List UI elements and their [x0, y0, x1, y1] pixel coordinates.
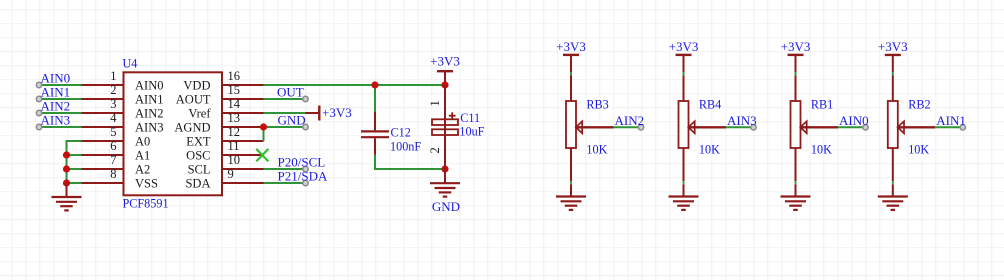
pin 10 SCL	[188, 153, 264, 177]
svg-text:A0: A0	[135, 134, 150, 148]
svg-text:RB1: RB1	[811, 98, 833, 112]
designator RB4	[699, 98, 721, 112]
value 10uF	[459, 125, 484, 139]
value 10K	[586, 142, 607, 156]
svg-text:AIN2: AIN2	[135, 106, 163, 120]
designator C11	[460, 111, 480, 125]
svg-text:AIN3: AIN3	[727, 113, 757, 128]
pin 12 EXT	[186, 125, 263, 149]
svg-text:AIN3: AIN3	[135, 120, 163, 134]
svg-text:11: 11	[228, 139, 240, 153]
svg-text:U4: U4	[123, 56, 138, 70]
svg-text:+3V3: +3V3	[781, 39, 811, 54]
power port +3V3 (RB4)	[669, 39, 699, 73]
net label P21/SDA	[278, 169, 328, 184]
designator C12	[391, 126, 411, 140]
wire end dot	[36, 96, 41, 101]
junction VDD/C11	[441, 81, 448, 88]
pin 6 A1	[82, 139, 151, 163]
svg-text:10K: 10K	[699, 142, 720, 156]
svg-text:OUT: OUT	[277, 85, 304, 100]
wire to ground	[570, 182, 572, 184]
svg-text:SCL: SCL	[188, 162, 211, 176]
svg-text:10K: 10K	[811, 142, 832, 156]
svg-text:2: 2	[110, 83, 116, 97]
ground symbol (U4)	[52, 197, 82, 210]
svg-text:12: 12	[228, 125, 241, 139]
C11 pin number 2	[428, 147, 442, 153]
svg-text:10: 10	[228, 153, 241, 167]
pin 7 A2	[82, 153, 151, 177]
wiper arrow RB2	[898, 121, 936, 133]
svg-text:13: 13	[228, 111, 241, 125]
pin 13 AGND	[174, 111, 263, 135]
capacitor C11 10uF	[432, 85, 458, 169]
svg-text:9: 9	[228, 167, 234, 181]
net label P20/SCL	[278, 155, 326, 170]
wire RB2 bottom pin	[892, 148, 894, 181]
wire C12 top	[374, 85, 376, 112]
designator RB3	[586, 98, 608, 112]
wire to GND port	[444, 169, 446, 183]
ground symbol (RB2)	[878, 197, 908, 210]
svg-text:3: 3	[110, 97, 116, 111]
svg-text:7: 7	[110, 153, 116, 167]
net label AIN2	[41, 99, 71, 114]
svg-text:VSS: VSS	[135, 176, 158, 190]
designator RB1	[811, 98, 833, 112]
potentiometer RB1 body	[791, 101, 801, 148]
net label AIN0	[41, 71, 71, 86]
wire net P21/SDA from pin 9	[264, 182, 306, 184]
wire to ground	[795, 182, 797, 184]
wire segment	[683, 75, 685, 101]
pin 16 VDD	[183, 69, 263, 93]
svg-text:100nF: 100nF	[390, 140, 421, 154]
wire end dot AIN1	[960, 125, 965, 130]
wire end dot	[36, 124, 41, 129]
wire net AIN2 from wiper	[614, 126, 642, 128]
net label AIN3	[727, 113, 757, 128]
wire end dot	[36, 110, 41, 115]
pin 15 AOUT	[176, 83, 264, 107]
junction VDD/C12	[371, 81, 378, 88]
wire A2 to ground bus	[67, 168, 82, 170]
svg-text:C11: C11	[460, 111, 480, 125]
power port +3V3 (RB3)	[556, 39, 586, 73]
wire segment	[570, 184, 572, 196]
svg-text:VDD: VDD	[183, 78, 210, 92]
wire segment	[570, 75, 572, 101]
value 10K	[699, 142, 720, 156]
wire A0 to ground bus	[66, 140, 82, 142]
potentiometer RB3 body	[566, 101, 576, 148]
wire segment	[892, 184, 894, 196]
wire net AIN0 from wiper	[838, 126, 866, 128]
power port +3V3 (RB1)	[781, 39, 811, 73]
C11 pin number 1	[428, 100, 442, 106]
wire +3V3 to RB3	[570, 72, 572, 75]
junction A1	[63, 151, 70, 158]
net label AIN3	[41, 113, 71, 128]
wire pin 14 Vref	[264, 112, 306, 114]
wire segment	[683, 184, 685, 196]
wire +3V3 to RB1	[795, 72, 797, 75]
GND label	[432, 199, 460, 214]
designator RB2	[908, 98, 930, 112]
svg-text:5: 5	[110, 125, 116, 139]
wire RB1 bottom pin	[795, 148, 797, 181]
pin 8 VSS	[82, 167, 158, 191]
value 10K	[908, 142, 929, 156]
wire end dot P21/SDA	[303, 180, 308, 185]
svg-text:RB4: RB4	[699, 98, 721, 112]
wire net AIN3 from wiper	[726, 126, 754, 128]
wire VSS to ground bus	[67, 182, 82, 184]
svg-text:AOUT: AOUT	[176, 92, 211, 106]
junction VSS	[63, 179, 70, 186]
wire net AIN2 to pin 3	[42, 112, 82, 114]
value 100nF	[390, 140, 421, 154]
junction pin 13	[260, 123, 267, 130]
svg-text:AIN2: AIN2	[41, 99, 71, 114]
svg-text:Vref: Vref	[188, 106, 211, 120]
wire end dot	[36, 82, 41, 87]
pin 1 AIN0	[82, 69, 164, 93]
svg-text:AIN0: AIN0	[135, 78, 163, 92]
part name PCF8591	[123, 196, 169, 210]
wire net AIN3 to pin 4	[42, 126, 82, 128]
net label OUT	[277, 85, 304, 100]
svg-text:+3V3: +3V3	[669, 39, 699, 54]
pin 3 AIN2	[82, 97, 164, 121]
svg-text:A1: A1	[135, 148, 150, 162]
svg-text:GND: GND	[278, 113, 306, 128]
pin 11 OSC	[186, 139, 262, 163]
wire net GND from pin 13	[264, 126, 306, 128]
wire segment	[892, 75, 894, 101]
net label AIN0	[839, 113, 869, 128]
wire net OUT from pin 15	[264, 98, 306, 100]
svg-text:10K: 10K	[586, 142, 607, 156]
power port +3V3 (RB2)	[878, 39, 908, 73]
wire end dot GND	[303, 124, 308, 129]
svg-text:+3V3: +3V3	[556, 39, 586, 54]
svg-text:C12: C12	[391, 126, 411, 140]
svg-text:AIN1: AIN1	[41, 85, 71, 100]
wire +3V3 to RB2	[892, 72, 894, 75]
svg-text:2: 2	[428, 147, 442, 153]
svg-text:1: 1	[428, 100, 442, 106]
net label GND	[278, 113, 306, 128]
svg-text:SDA: SDA	[185, 176, 210, 190]
wire net AIN1 from wiper	[935, 126, 963, 128]
svg-text:10K: 10K	[908, 142, 929, 156]
svg-text:PCF8591: PCF8591	[123, 196, 169, 210]
potentiometer RB2 body	[888, 101, 898, 148]
svg-text:AGND: AGND	[174, 120, 210, 134]
wire net P20/SCL from pin 10	[264, 168, 306, 170]
svg-text:AIN0: AIN0	[41, 71, 71, 86]
wiper arrow RB1	[800, 121, 838, 133]
wire net AIN1 to pin 2	[42, 98, 82, 100]
power port +3V3 on rail	[430, 53, 460, 85]
no-connect X on pin 11 OSC	[256, 149, 268, 162]
wire VDD rail	[264, 84, 446, 86]
svg-text:RB2: RB2	[908, 98, 930, 112]
svg-text:AIN1: AIN1	[936, 113, 966, 128]
wire pin 13 to pin 12	[263, 127, 265, 141]
svg-text:AIN1: AIN1	[135, 92, 163, 106]
wire to ground	[683, 182, 685, 184]
pin 5 A0	[82, 125, 151, 149]
net label AIN1	[936, 113, 966, 128]
svg-text:EXT: EXT	[186, 134, 211, 148]
wiper arrow RB3	[576, 121, 614, 133]
svg-text:AIN3: AIN3	[41, 113, 71, 128]
svg-text:RB3: RB3	[586, 98, 608, 112]
power port +3V3 on Vref	[306, 105, 352, 120]
svg-text:A2: A2	[135, 162, 150, 176]
potentiometer RB4 body	[679, 101, 689, 148]
wire RB3 bottom pin	[570, 148, 572, 181]
svg-text:+3V3: +3V3	[878, 39, 908, 54]
wire ground bus vertical	[66, 141, 68, 183]
wire segment	[795, 75, 797, 101]
capacitor C12 100nF	[361, 112, 389, 169]
wire to ground	[892, 182, 894, 184]
net label AIN2	[615, 113, 645, 128]
pin 4 AIN3	[82, 111, 164, 135]
svg-text:10uF: 10uF	[459, 125, 484, 139]
svg-text:P20/SCL: P20/SCL	[278, 155, 326, 170]
pin 9 SDA	[185, 167, 263, 191]
pin 14 Vref	[188, 97, 263, 121]
svg-text:AIN2: AIN2	[615, 113, 645, 128]
wire end dot AIN0	[863, 125, 868, 130]
pin 2 AIN1	[82, 83, 164, 107]
svg-text:+3V3: +3V3	[322, 105, 352, 120]
wire C12 to C11 bottom rail	[374, 168, 445, 170]
wire RB4 bottom pin	[683, 148, 685, 181]
svg-text:8: 8	[110, 167, 116, 181]
wire segment	[795, 184, 797, 196]
ground symbol GND	[430, 183, 460, 196]
svg-text:GND: GND	[432, 199, 460, 214]
svg-text:15: 15	[228, 83, 241, 97]
ground symbol (RB4)	[669, 197, 699, 210]
svg-text:14: 14	[228, 97, 241, 111]
svg-text:OSC: OSC	[186, 148, 210, 162]
wire end dot P20/SCL	[303, 166, 308, 171]
wire +3V3 to RB4	[683, 72, 685, 75]
wire end dot AIN3	[751, 125, 756, 130]
wiper arrow RB4	[688, 121, 726, 133]
junction bottom rail	[441, 165, 448, 172]
svg-text:1: 1	[110, 69, 116, 83]
designator U4	[123, 56, 138, 70]
value 10K	[811, 142, 832, 156]
wire A1 to ground bus	[67, 154, 82, 156]
svg-text:4: 4	[110, 111, 117, 125]
wire end dot OUT	[303, 96, 308, 101]
net label AIN1	[41, 85, 71, 100]
svg-text:P21/SDA: P21/SDA	[278, 169, 328, 184]
wire end dot AIN2	[638, 125, 643, 130]
ground symbol (RB1)	[781, 197, 811, 210]
wire net AIN0 to pin 1	[42, 84, 82, 86]
junction A2	[63, 165, 70, 172]
IC U4 PCF8591 body	[124, 72, 223, 195]
svg-text:16: 16	[228, 69, 241, 83]
svg-text:6: 6	[110, 139, 116, 153]
ground symbol (RB3)	[556, 197, 586, 210]
wire to ground symbol	[66, 183, 68, 197]
svg-text:AIN0: AIN0	[839, 113, 869, 128]
svg-text:+3V3: +3V3	[430, 53, 460, 68]
